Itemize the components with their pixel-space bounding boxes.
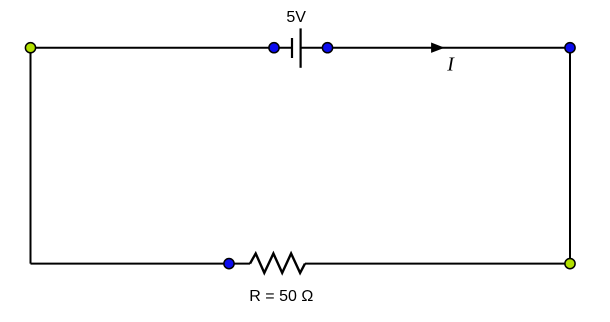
- svg-text:R = 50 Ω: R = 50 Ω: [249, 288, 313, 305]
- node resistor left (blue junction): [224, 259, 234, 269]
- node battery left (blue junction): [269, 43, 279, 53]
- node battery right (blue junction): [322, 43, 332, 53]
- battery V1 positive plate (long bar): [300, 28, 302, 67]
- node A top-left (yellow-green terminal): [25, 43, 35, 53]
- wire left side (node A down to bottom-left corner): [30, 48, 32, 264]
- wire top-left segment (node A to battery negative plate): [31, 47, 293, 49]
- resistor R zigzag body: [250, 254, 305, 273]
- wire top-right segment (battery positive plate to node B): [301, 47, 570, 49]
- wire bottom-left segment (corner to resistor): [31, 263, 251, 265]
- wire bottom-right segment (resistor to node D): [305, 263, 570, 265]
- svg-text:5V: 5V: [286, 9, 306, 26]
- svg-text:I: I: [446, 54, 455, 76]
- node B top-right (blue junction): [565, 43, 575, 53]
- node D bottom-right (yellow-green terminal): [565, 259, 575, 269]
- battery V1 negative plate (short bar): [291, 38, 293, 58]
- current direction arrowhead: [432, 43, 444, 52]
- wire right side (node B down to node D): [569, 48, 571, 264]
